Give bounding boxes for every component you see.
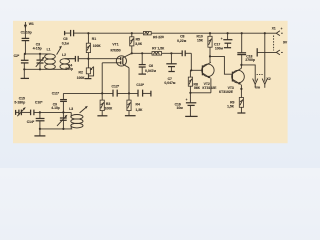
svg-text:4-15p: 4-15p	[51, 106, 59, 110]
svg-text:C8: C8	[180, 34, 184, 38]
node C5/R1 junction	[87, 32, 89, 34]
ground (tank 2)	[34, 129, 45, 136]
svg-text:КП350: КП350	[111, 49, 121, 53]
svg-text:+: +	[221, 37, 223, 41]
svg-text:C6: C6	[149, 64, 153, 68]
X2 mechanical link (dashed)	[257, 74, 264, 76]
node C9 bottom	[62, 128, 64, 130]
svg-text:+: +	[281, 27, 283, 31]
capacitor C4	[65, 56, 88, 71]
node R8/C16 junction	[189, 92, 191, 94]
schematic paper background	[13, 21, 288, 143]
svg-text:0,1м: 0,1м	[62, 42, 70, 46]
node C18 top	[241, 32, 243, 34]
resistor R4	[125, 93, 143, 115]
resistor R1	[86, 33, 101, 59]
svg-text:1,5К: 1,5К	[227, 104, 235, 108]
node gate1 junction	[87, 58, 89, 60]
transistor VT3	[228, 68, 245, 90]
resistor R8	[188, 70, 200, 93]
inductor L3	[69, 107, 83, 129]
wire VT3 collector	[240, 65, 242, 68]
wire L2 to C4	[66, 58, 76, 60]
svg-text:0,047м: 0,047м	[164, 81, 175, 85]
capacitor C11	[52, 91, 67, 112]
resistor R9	[227, 89, 245, 113]
svg-text:330p: 330p	[65, 67, 73, 71]
svg-text:15К: 15К	[197, 39, 204, 43]
svg-text:КТ3102Е: КТ3102Е	[202, 86, 217, 90]
node C3 top	[39, 53, 41, 55]
capacitor C17 (electrolytic)	[214, 33, 232, 50]
svg-text:КТ3102Е: КТ3102Е	[219, 90, 234, 94]
capacitor C9 (variable)	[51, 103, 67, 129]
resistor R10	[197, 33, 213, 62]
svg-text:100К: 100К	[105, 106, 114, 110]
wire tank bottom rail	[24, 68, 65, 70]
svg-text:0,047м: 0,047м	[145, 69, 156, 73]
svg-text:X2: X2	[266, 77, 270, 81]
capacitor C8	[177, 34, 191, 56]
node R4 top	[128, 92, 130, 94]
node VT3 collector	[240, 64, 242, 66]
capacitor C15 (variable)	[14, 96, 30, 116]
wire X1 lower lead	[257, 48, 276, 56]
inductor L1	[45, 48, 56, 70]
capacitor C16 (electrolytic)	[175, 93, 198, 117]
svg-text:W1: W1	[29, 22, 34, 26]
wire VT1 source	[128, 68, 130, 94]
connector X2 jack right	[262, 52, 267, 87]
wire top supply rail right	[151, 32, 265, 34]
inductor L2	[60, 53, 75, 69]
node C14 top	[39, 111, 41, 113]
connector X1 lower contact	[276, 50, 283, 55]
node C11 bottom	[62, 111, 64, 113]
wire tank top rail	[24, 53, 50, 55]
antenna W1	[24, 22, 34, 38]
svg-text:+: +	[186, 98, 188, 102]
capacitor C13	[136, 83, 151, 97]
svg-text:VT1: VT1	[112, 42, 118, 46]
wire top supply rail	[88, 32, 143, 34]
capacitor C1	[21, 30, 32, 54]
node A (antenna/tank junction)	[24, 53, 26, 55]
node C3 bottom	[39, 68, 41, 70]
svg-text:100К: 100К	[93, 44, 102, 48]
capacitor C3 (variable)	[33, 42, 45, 69]
wire rail B (left part)	[63, 92, 113, 94]
resistor R3	[97, 93, 113, 115]
resistor R7	[152, 46, 165, 55]
wire gate2	[102, 63, 117, 94]
node VT2 base junction	[190, 69, 192, 71]
X1 mechanical link (dashed)	[273, 36, 275, 51]
wire X1 riser	[264, 33, 266, 52]
svg-text:1,5К: 1,5К	[136, 108, 144, 112]
transistor VT2	[202, 62, 214, 93]
svg-text:L1: L1	[47, 48, 51, 52]
node VT2 collector	[209, 55, 211, 57]
svg-text:C14*: C14*	[27, 120, 35, 124]
svg-text:C10*: C10*	[35, 101, 43, 105]
ground (tank 1)	[21, 69, 29, 78]
wire drain rail	[132, 52, 152, 54]
L3 core arrow	[80, 106, 88, 113]
svg-text:4-15p: 4-15p	[33, 47, 42, 51]
svg-text:56К: 56К	[194, 86, 201, 90]
svg-text:C11*: C11*	[52, 91, 60, 95]
svg-text:R3: R3	[106, 102, 110, 106]
capacitor C12	[112, 84, 139, 96]
resistor R5	[130, 33, 143, 53]
capacitor C7	[164, 53, 176, 85]
svg-text:3,0К: 3,0К	[135, 42, 143, 46]
capacitor C5	[62, 30, 89, 46]
wire collector to X2	[241, 65, 255, 82]
capacitor C2	[14, 54, 29, 69]
node C2 bottom	[23, 68, 25, 70]
L1/L2 core arrow	[57, 46, 62, 55]
svg-text:10м: 10м	[177, 106, 184, 110]
capacitor C18	[237, 33, 255, 65]
svg-text:C12*: C12*	[112, 84, 120, 88]
node gate2/R3 junction	[101, 92, 103, 94]
wire rail A	[34, 111, 71, 113]
capacitor C10	[31, 101, 44, 116]
svg-text:C13*: C13*	[136, 83, 144, 87]
capacitor C6	[139, 53, 157, 74]
svg-text:5-180p: 5-180p	[14, 101, 25, 105]
connector X2 jack left	[253, 79, 258, 88]
svg-text:R7 1,5К: R7 1,5К	[152, 46, 165, 50]
svg-text:2700p: 2700p	[245, 58, 255, 62]
svg-text:R1: R1	[92, 37, 96, 41]
svg-text:ТЛФ: ТЛФ	[255, 86, 261, 90]
wire emitter rail VT2	[190, 92, 211, 94]
node VT3 emitter	[240, 88, 242, 90]
potentiometer R2	[77, 59, 94, 80]
svg-text:L3: L3	[69, 107, 73, 111]
transistor VT1	[111, 42, 132, 67]
node R10 top	[209, 32, 211, 34]
node C17 top	[227, 32, 229, 34]
svg-text:R2: R2	[79, 71, 83, 75]
wire drain rail right	[162, 52, 183, 54]
svg-text:R4: R4	[136, 103, 140, 107]
svg-text:X1: X1	[272, 26, 276, 30]
resistor R6	[143, 32, 164, 40]
wire C8 to VT2 base	[191, 53, 202, 70]
node R5 top	[131, 32, 133, 34]
svg-text:0,22м: 0,22м	[177, 39, 187, 43]
node C7 top	[170, 52, 172, 54]
svg-text:C1 10p: C1 10p	[21, 30, 32, 34]
capacitor C14	[27, 112, 45, 128]
svg-text:C2*: C2*	[14, 54, 20, 58]
connector X1 upper contact	[265, 31, 283, 36]
svg-text:9V: 9V	[283, 40, 288, 44]
svg-text:R6 220: R6 220	[153, 35, 164, 39]
node C14 bottom	[39, 128, 41, 130]
svg-text:100м: 100м	[215, 46, 224, 50]
node X1 branch	[264, 32, 266, 34]
svg-text:100К: 100К	[77, 76, 86, 80]
node drain junction	[131, 52, 133, 54]
wire VT2 collector to VT3 base	[210, 56, 232, 74]
svg-text:R5: R5	[136, 38, 140, 42]
wire tank2 bottom rail	[40, 128, 72, 130]
svg-text:L2: L2	[62, 53, 66, 57]
wire gate1	[88, 58, 117, 60]
node C6 top	[141, 52, 143, 54]
